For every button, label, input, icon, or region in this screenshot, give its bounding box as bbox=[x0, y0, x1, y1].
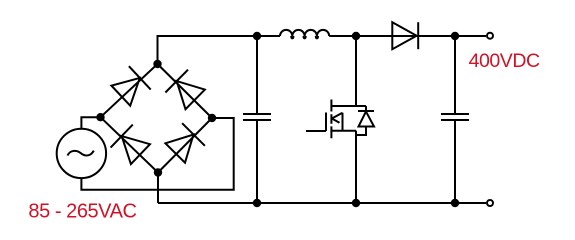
wire: drain lead down bbox=[355, 36, 357, 106]
diode D3 (bridge, bottom to left) bbox=[111, 125, 150, 165]
terminal: output negative bbox=[487, 200, 493, 206]
wire: source lead down to negative rail bbox=[355, 131, 357, 203]
wire: ac source top lead to bridge left node bbox=[81, 117, 100, 129]
capacitor C1 top lead bbox=[256, 36, 258, 114]
svg-text:85 - 265VAC: 85 - 265VAC bbox=[28, 201, 136, 223]
wire: bridge side right-top bbox=[158, 64, 213, 118]
wire: bridge bottom to negative rail bbox=[157, 173, 159, 204]
junction: C1 top on positive rail bbox=[253, 32, 261, 40]
diode D5 (boost output diode) bbox=[392, 22, 418, 49]
junction: C2 bottom on negative rail bbox=[451, 199, 459, 207]
terminal: output positive bbox=[487, 33, 493, 39]
capacitor C2 bbox=[441, 114, 469, 120]
node: bridge bottom (-) bbox=[154, 168, 162, 176]
node: bridge right (ac) bbox=[208, 114, 216, 122]
node: bridge top (+) bbox=[153, 60, 161, 68]
junction: source on negative rail bbox=[352, 199, 360, 207]
capacitor C1 bottom lead bbox=[256, 120, 258, 203]
node: bridge left (ac) bbox=[96, 113, 104, 121]
wire: bottom negative rail bbox=[158, 202, 486, 204]
diode D1 (bridge, left to top) bbox=[111, 66, 150, 106]
body diode of Q1 bbox=[356, 106, 374, 135]
capacitor C1 bbox=[243, 114, 271, 120]
svg-text:400VDC: 400VDC bbox=[469, 50, 540, 72]
diode D2 (bridge, right to top) bbox=[165, 70, 205, 110]
capacitor C2 bottom lead bbox=[454, 120, 456, 203]
junction: output node on positive rail bbox=[451, 32, 459, 40]
inductor L1 bbox=[280, 30, 329, 39]
ac source V1 bbox=[57, 129, 106, 178]
junction: mosfet drain node on rail bbox=[352, 32, 360, 40]
wire: bridge side bottom-left bbox=[101, 117, 159, 172]
wire: bridge side bottom-right bbox=[158, 118, 212, 173]
wire: ac source bottom lead to bridge right node bbox=[81, 118, 233, 190]
transistor Q1 (n-mosfet) bbox=[306, 100, 366, 139]
wire: top positive rail bbox=[158, 36, 487, 64]
wire: bridge side left-top bbox=[101, 64, 158, 117]
capacitor C2 top lead bbox=[454, 36, 456, 114]
junction: C1 bottom on negative rail bbox=[253, 199, 261, 207]
diode D4 (bridge, bottom to right) bbox=[165, 123, 205, 163]
